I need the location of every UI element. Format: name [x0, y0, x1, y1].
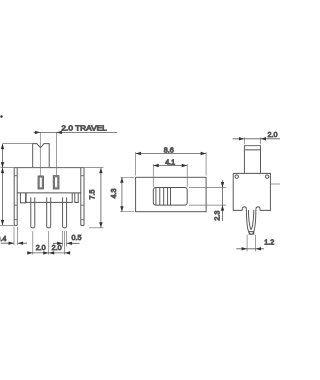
wall-bottom extension line	[0, 224, 18, 226]
dimension 2.0 TRAVEL	[34, 131, 118, 133]
dimension 4.3	[120, 177, 134, 211]
svg-text:8.6: 8.6	[164, 146, 174, 155]
right bottom bump	[256, 207, 260, 211]
dimension 7.5	[100, 168, 102, 228]
wall fold ticks	[14, 176, 84, 220]
svg-text:1.2: 1.2	[264, 237, 274, 246]
pin tip notch box	[249, 232, 254, 235]
chain dimension 2.0 / 2.0	[33, 231, 65, 255]
left wall	[14, 168, 17, 226]
fork pin inner V slot	[248, 210, 253, 230]
body rectangle	[233, 173, 270, 210]
right corner curl	[265, 175, 268, 178]
rivet 2	[53, 176, 59, 189]
right wall	[81, 168, 84, 226]
base	[26, 193, 72, 203]
left chain dimension line	[2, 144, 4, 226]
dimension 0.5	[63, 231, 67, 247]
pin 2	[47, 197, 51, 228]
svg-text:2.0 TRAVEL: 2.0 TRAVEL	[61, 123, 106, 132]
dimension 2.0 (side actuator)	[244, 137, 260, 144]
pin 1	[31, 197, 35, 228]
rivet 1	[38, 176, 43, 189]
actuator knob with V-notch	[33, 144, 50, 168]
svg-text:0.5: 0.5	[72, 233, 82, 242]
extension line through knob center	[39, 132, 41, 177]
slot	[153, 188, 187, 206]
fork pin right outer edge	[251, 210, 256, 234]
dimension 8.6	[136, 152, 207, 175]
knob-top extension line	[3, 143, 33, 145]
left bottom bump	[242, 207, 246, 211]
svg-text:4.1: 4.1	[165, 157, 175, 166]
dimension 4.1	[153, 164, 187, 187]
svg-text:7.5: 7.5	[88, 190, 97, 200]
body-top extension line	[1, 167, 104, 169]
slider knob	[170, 188, 172, 206]
slider ridges	[156, 188, 168, 205]
dimension 0.4	[14, 227, 18, 246]
pin 3	[63, 197, 67, 228]
dimension 1.2 (fork pin)	[247, 235, 256, 252]
right foot	[75, 193, 78, 203]
stray mark top-left	[0, 115, 3, 118]
svg-text:2.3: 2.3	[213, 211, 222, 221]
svg-text:2.0: 2.0	[52, 243, 62, 252]
actuator knob	[244, 146, 260, 174]
body bottom edge	[17, 192, 81, 194]
outer body rectangle	[136, 177, 207, 211]
left corner curl	[235, 175, 238, 178]
knob top band line	[244, 149, 260, 151]
right side extension line	[270, 183, 280, 185]
svg-text:0.4: 0.4	[0, 234, 6, 243]
svg-text:2.0: 2.0	[268, 130, 278, 139]
dimension 2.3 (slot height)	[189, 188, 226, 206]
body top edge	[14, 167, 84, 169]
fork pin left outer edge	[246, 210, 251, 234]
left foot	[20, 193, 25, 203]
svg-text:2.0: 2.0	[36, 243, 46, 252]
svg-text:4.3: 4.3	[109, 189, 118, 199]
extension line right of knob	[55, 132, 57, 177]
